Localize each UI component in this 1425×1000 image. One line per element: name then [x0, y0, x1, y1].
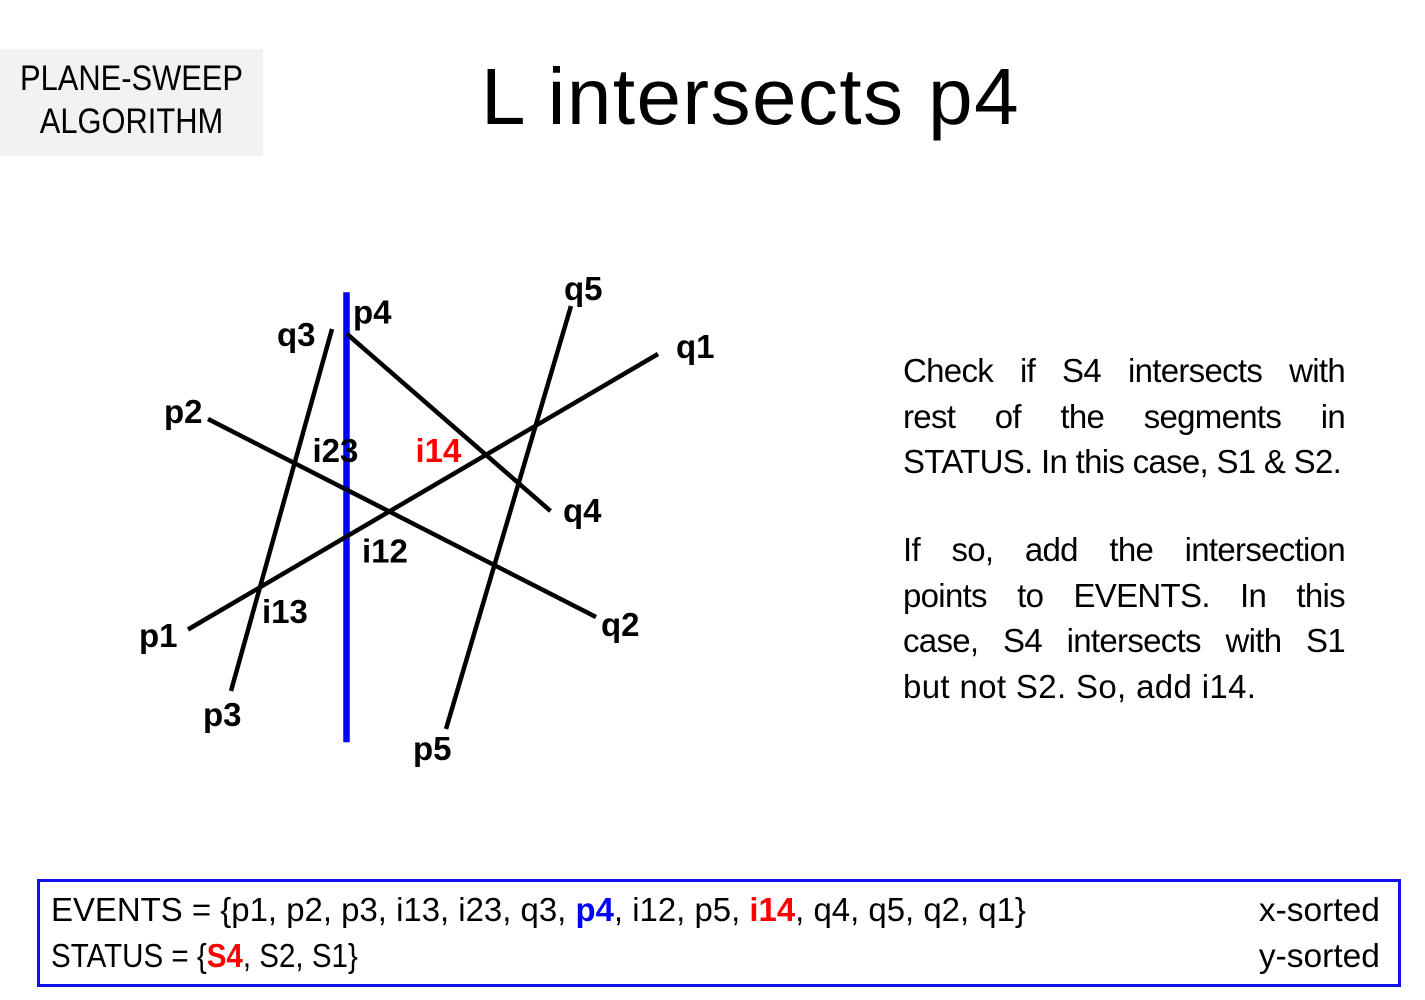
- svg-text:q3: q3: [277, 316, 316, 353]
- svg-text:q1: q1: [676, 328, 715, 365]
- svg-text:q5: q5: [564, 270, 603, 307]
- svg-text:i14: i14: [416, 432, 463, 469]
- svg-text:q4: q4: [563, 492, 602, 529]
- svg-text:i12: i12: [362, 533, 408, 570]
- svg-text:p5: p5: [413, 730, 452, 767]
- svg-text:p4: p4: [353, 294, 392, 331]
- svg-text:i13: i13: [262, 593, 308, 630]
- svg-text:q2: q2: [601, 606, 640, 643]
- svg-text:i23: i23: [313, 432, 359, 469]
- svg-text:p1: p1: [139, 617, 178, 654]
- svg-text:p3: p3: [203, 696, 242, 733]
- svg-text:p2: p2: [164, 393, 203, 430]
